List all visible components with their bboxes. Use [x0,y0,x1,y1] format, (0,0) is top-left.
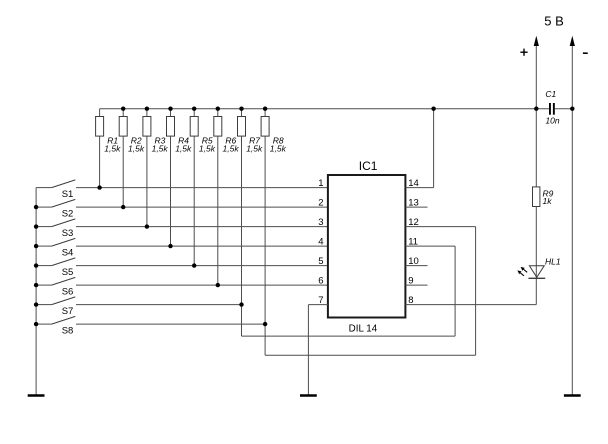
node R4-S4 junction [168,244,172,248]
resistor R4 [167,109,175,246]
label R5 value [199,135,216,153]
label R9 value [543,188,554,206]
node left bus S7 junction [34,302,38,306]
wire S6 to IC pin 6 [76,284,328,286]
op-amp U1: IC1 body [328,175,406,318]
wire S7 to R7 leg [76,304,242,306]
capacitor C1 [549,103,555,115]
node bus-R8 junction [263,107,267,111]
wire LED vertical lead [535,207,537,305]
label R6 value [223,135,240,153]
wire S2 to IC pin 2 [76,206,328,208]
svg-text:DIL 14: DIL 14 [349,324,378,335]
node + rail arrow [534,36,539,46]
svg-text:S6: S6 [62,286,74,297]
wire pin 14 to VCC bus [405,109,433,188]
svg-text:S4: S4 [62,247,74,258]
svg-text:HL1: HL1 [545,257,561,267]
node left bus S5 junction [34,263,38,267]
resistor R8 [261,109,269,356]
node left bus S8 junction [34,322,38,326]
switch S4 [36,238,75,246]
node R7-S7 junction [239,302,243,306]
wire S8 to R8 leg [76,323,265,325]
svg-text:1,5k: 1,5k [270,143,287,153]
resistor R5 [190,109,198,266]
wire pin 7 to ground [308,305,328,395]
svg-text:1,5k: 1,5k [175,143,192,153]
resistor R6 [214,109,222,285]
wire S3 to IC pin 3 [76,226,328,228]
wire pin 12 to S8 net [265,227,476,356]
node left bus S2 junction [34,205,38,209]
svg-text:S7: S7 [62,306,74,317]
node left bus S3 junction [34,224,38,228]
ground (left bus) [28,394,45,397]
wire pin 10 stub [405,265,427,267]
node bus-R4 junction [168,107,172,111]
wire S4 to IC pin 4 [76,245,328,247]
svg-text:4: 4 [318,237,323,248]
wire - rail [571,43,573,395]
svg-text:2: 2 [318,198,323,209]
node R3-S3 junction [145,224,149,228]
wire S5 to IC pin 5 [76,265,328,267]
switch S8 [36,316,75,324]
wire left common bus [35,188,37,395]
wire VCC top bus (right of C1) [555,108,573,110]
node R1-S1 junction [97,185,101,189]
node bus-R7 junction [239,107,243,111]
svg-text:1,5k: 1,5k [223,143,240,153]
svg-text:1,5k: 1,5k [104,143,121,153]
resistor R9 [533,187,540,207]
svg-text:10n: 10n [545,116,559,126]
wire pin 9 stub [405,284,427,286]
svg-text:S8: S8 [62,325,74,336]
svg-text:C1: C1 [545,89,556,99]
switch S2 [36,199,75,207]
wire + rail [535,43,537,187]
resistor R7 [238,109,246,336]
node bus-R5 junction [192,107,196,111]
switch S7 [36,297,75,305]
label R4 value [175,135,192,153]
switch S1 [36,180,75,188]
node R8-S8 junction [263,322,267,326]
switch S3 [36,219,75,227]
label R8 value [270,135,287,153]
svg-text:S1: S1 [62,189,74,200]
svg-text:1k: 1k [543,196,553,206]
node bus-R6 junction [216,107,220,111]
resistor R1 [96,109,104,188]
svg-text:1: 1 [318,178,323,189]
svg-text:S2: S2 [62,208,74,219]
node bus-R2 junction [121,107,125,111]
ground (- rail) [564,394,581,397]
svg-text:S5: S5 [62,267,74,278]
wire pin 8 to HL1 cathode [405,304,536,306]
switch S5 [36,258,75,266]
switch S6 [36,277,75,285]
svg-text:1,5k: 1,5k [152,143,169,153]
svg-text:3: 3 [318,217,323,228]
node R6-S6 junction [216,283,220,287]
label + [520,49,527,56]
node +/bus junction [534,107,538,111]
resistor R2 [119,109,127,207]
label - [583,52,588,54]
svg-text:1,5k: 1,5k [128,143,145,153]
wire VCC top bus (left of C1) [100,108,549,110]
svg-text:6: 6 [318,276,323,287]
node R2-S2 junction [121,205,125,209]
svg-text:1,5k: 1,5k [246,143,263,153]
ground (pin 7) [300,394,317,397]
svg-text:S3: S3 [62,228,74,239]
label R1 value [104,135,121,153]
svg-text:1,5k: 1,5k [199,143,216,153]
node left bus S4 junction [34,244,38,248]
node pin14-bus junction [431,107,435,111]
wire pin 11 to S7 net [242,246,456,336]
node -/bus junction [570,107,574,111]
svg-text:5: 5 [318,256,323,267]
label R2 value [128,135,145,153]
diode HL1 (LED) [517,266,545,279]
resistor R3 [143,109,151,227]
node bus-R3 junction [145,107,149,111]
svg-text:5 B: 5 B [544,14,564,29]
wire S1 to IC pin 1 [76,187,328,189]
node left bus S6 junction [34,283,38,287]
label C1 value [545,89,559,125]
label R3 value [152,135,169,153]
wire pin 13 stub [405,206,427,208]
label R7 value [246,135,263,153]
svg-text:IC1: IC1 [359,159,378,173]
node - rail arrow [570,36,575,46]
node R5-S5 junction [192,263,196,267]
